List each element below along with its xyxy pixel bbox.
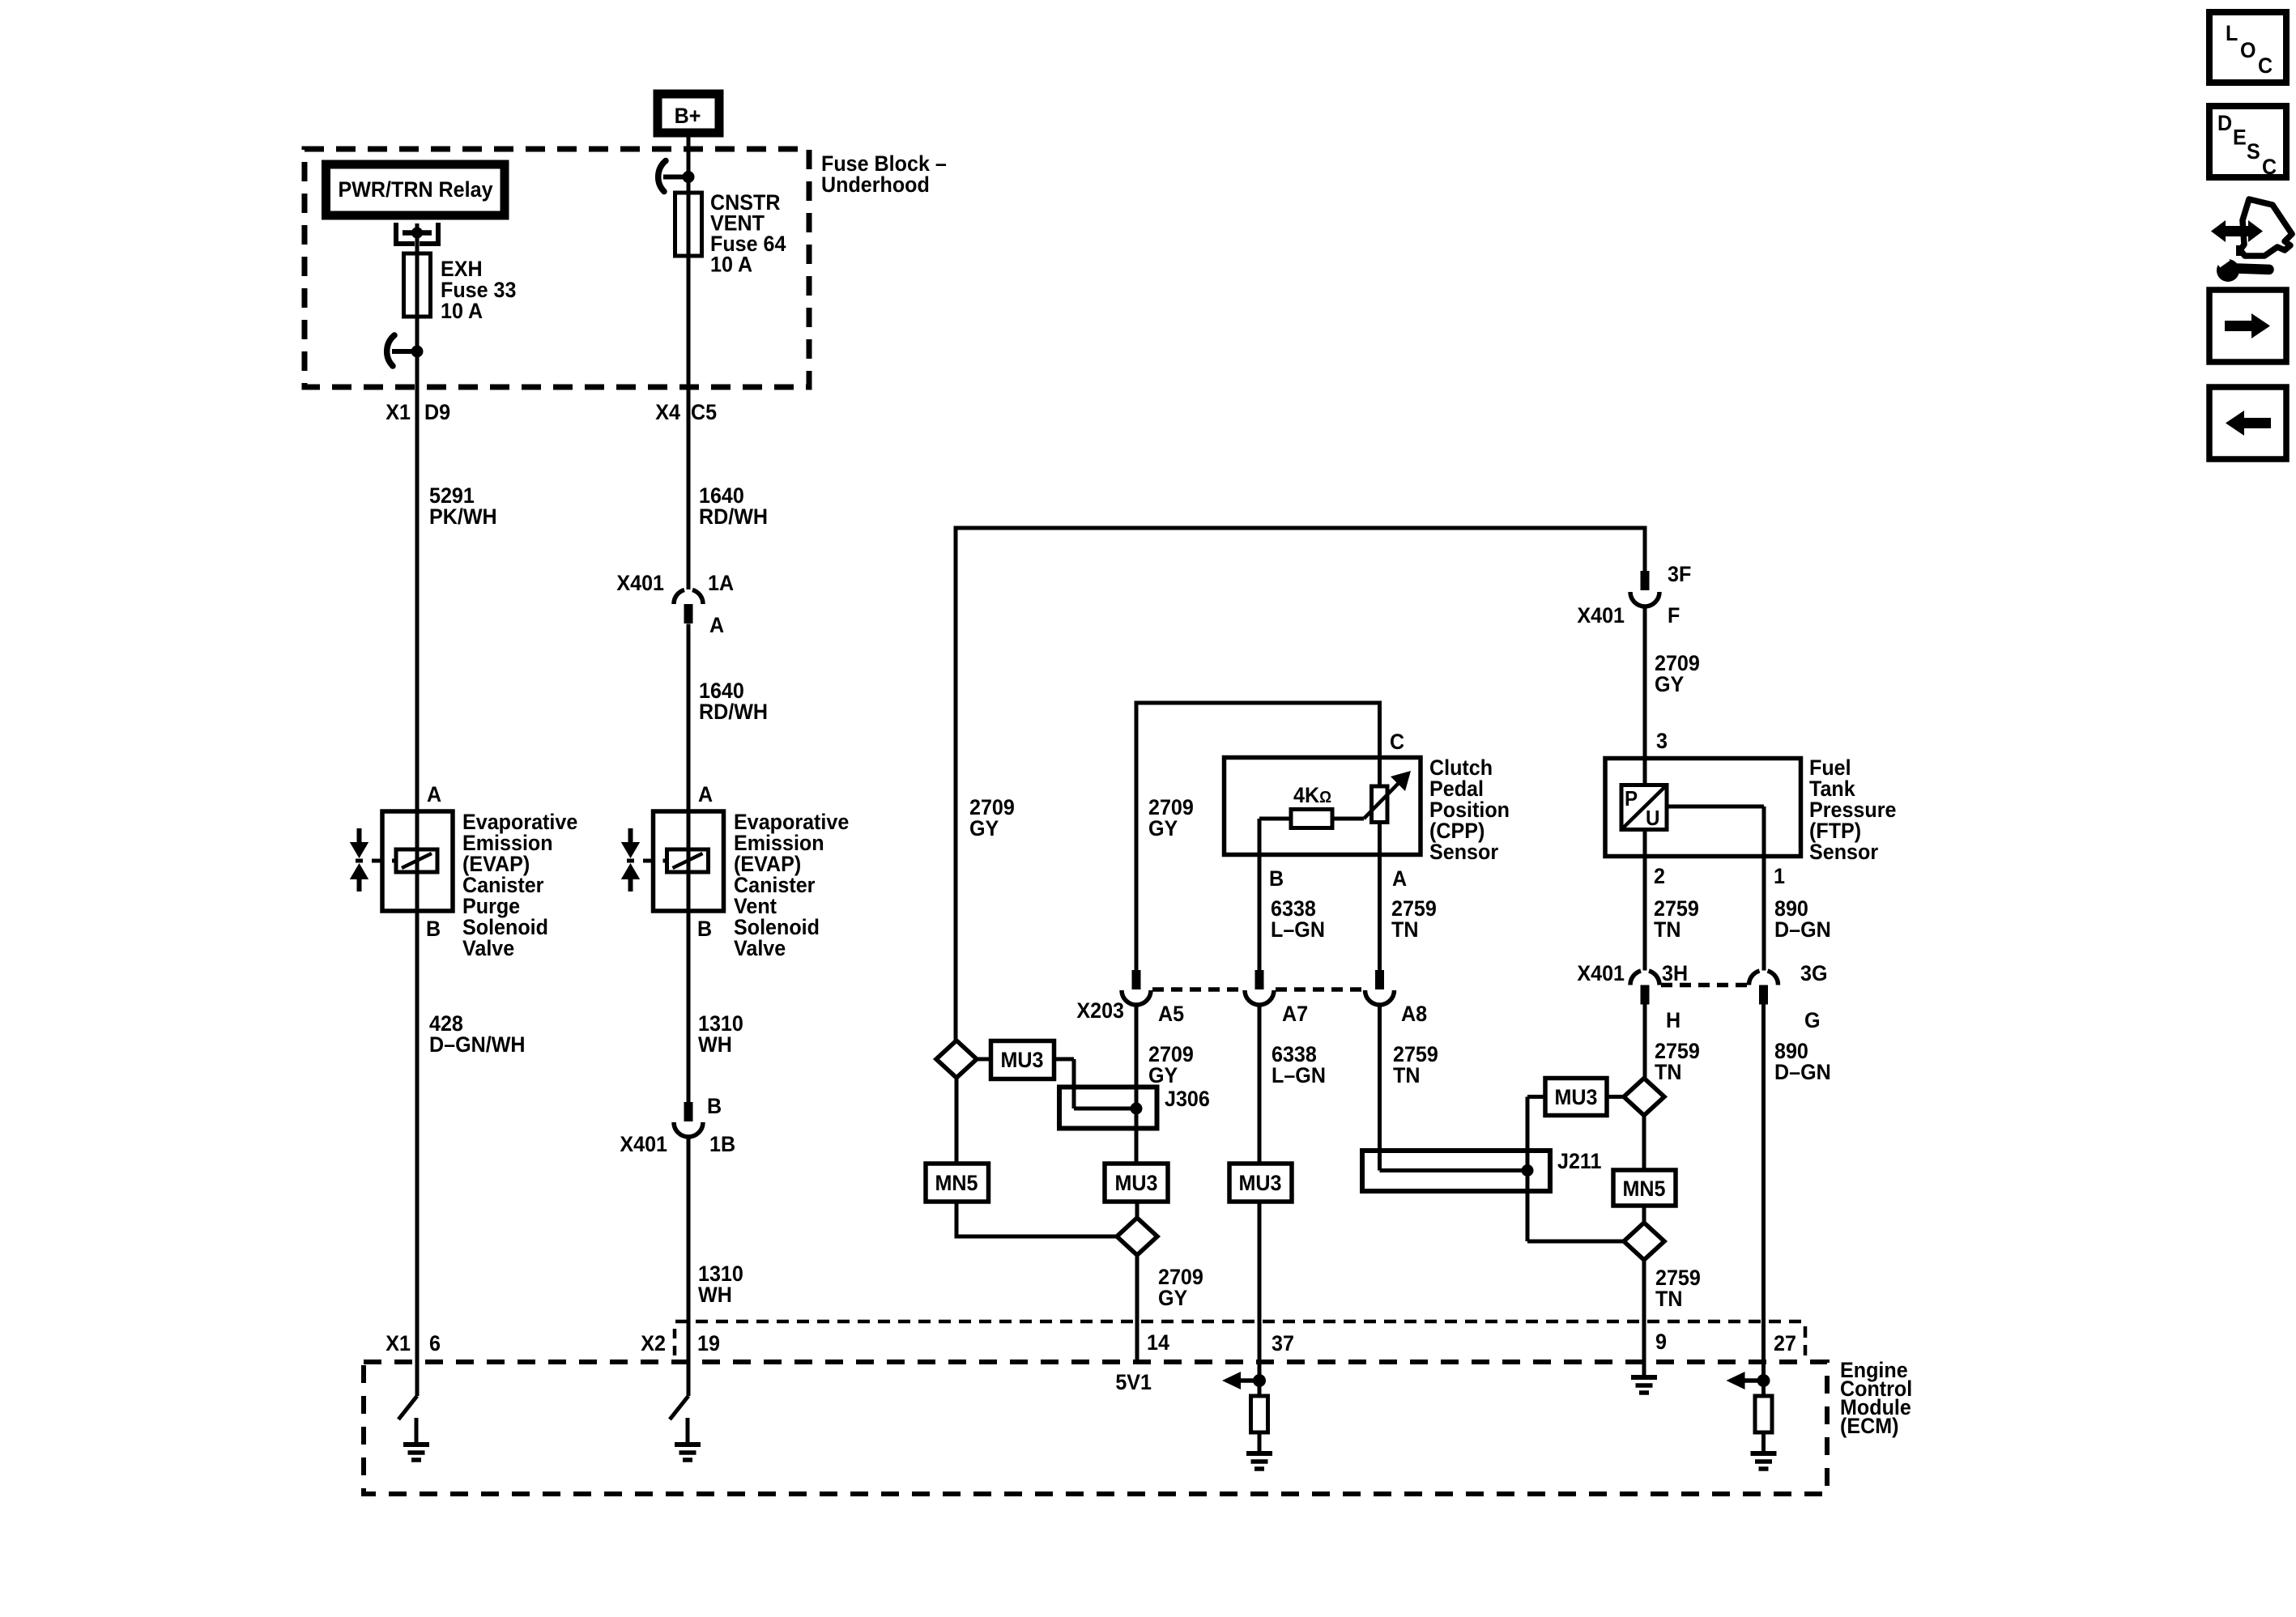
svg-text:L: L — [2226, 20, 2238, 45]
pin label A (X401) — [709, 612, 724, 637]
label CNSTR VENT Fuse 64 10 A — [710, 189, 786, 277]
ECM switch to ground (pin 19) — [670, 1362, 701, 1460]
wire relay to fuse 33 — [415, 233, 420, 254]
wire 5291 PK/WH — [417, 387, 497, 811]
svg-text:C5: C5 — [691, 399, 717, 424]
svg-text:GY: GY — [1655, 671, 1684, 696]
svg-text:B: B — [707, 1093, 722, 1118]
svg-text:Sensor: Sensor — [1809, 839, 1878, 864]
X401 harness dashes — [1661, 983, 1748, 988]
label Clutch Pedal Position (CPP) Sensor — [1429, 755, 1510, 864]
svg-text:J211: J211 — [1557, 1148, 1601, 1173]
svg-text:B: B — [1269, 866, 1284, 891]
wire CPP loop — [1136, 701, 1380, 971]
svg-text:G: G — [1804, 1007, 1821, 1032]
wire MU3 to diamond S3 — [1607, 1095, 1624, 1099]
wire B+ to fuse block — [687, 133, 691, 589]
wire 1640 RD/WH lower — [688, 624, 768, 812]
svg-text:RD/WH: RD/WH — [699, 699, 768, 724]
label X2 19 — [641, 1330, 720, 1355]
junction J306 — [1059, 1087, 1157, 1129]
relay contact hook X4 C5 — [658, 161, 695, 192]
ECM pull-up resistor pin 27 — [1727, 1362, 1777, 1469]
svg-text:14: 14 — [1147, 1330, 1169, 1355]
wire 6338 L-GN below A7 — [1259, 1005, 1326, 1164]
relay PWR/TRN label box — [326, 164, 505, 215]
wire MU3 to ECM 37 — [1258, 1202, 1262, 1362]
svg-text:A5: A5 — [1158, 1001, 1184, 1026]
svg-text:B: B — [697, 916, 712, 941]
connector X401 1A — [674, 590, 703, 624]
label Engine Control Module (ECM) — [1840, 1357, 1912, 1438]
label EVAP vent valve — [734, 809, 849, 960]
pin labels A5 A7 A8 — [1158, 1001, 1427, 1026]
label 3F — [1668, 561, 1691, 586]
pin label B above X401 1B — [707, 1093, 722, 1118]
connector X401 3G — [1749, 971, 1778, 1005]
svg-text:10 A: 10 A — [441, 298, 483, 323]
svg-text:MU3: MU3 — [1238, 1170, 1281, 1195]
label X1 6 — [386, 1330, 441, 1355]
wire MN5 to diamond S2 — [955, 1202, 1118, 1236]
svg-text:A8: A8 — [1401, 1001, 1427, 1026]
svg-text:GY: GY — [1158, 1285, 1187, 1310]
splice MU3 box 2 — [1105, 1164, 1168, 1202]
label J211 — [1557, 1148, 1601, 1173]
svg-text:D9: D9 — [424, 399, 450, 424]
ECM ground pin 9 — [1631, 1362, 1657, 1393]
splice diamond S2 — [1117, 1202, 1157, 1255]
svg-text:(ECM): (ECM) — [1840, 1413, 1899, 1438]
svg-text:X401: X401 — [620, 1131, 667, 1156]
wire 2759 TN (CPP A) — [1391, 896, 1437, 942]
svg-text:WH: WH — [698, 1282, 732, 1307]
svg-text:X1: X1 — [386, 399, 411, 424]
svg-text:WH: WH — [698, 1032, 732, 1057]
label X401 3H 3G — [1577, 960, 1827, 985]
svg-text:J306: J306 — [1165, 1086, 1210, 1111]
wire 2709 GY label (CPP loop leg) — [1148, 794, 1194, 840]
svg-text:X401: X401 — [616, 570, 664, 595]
svg-text:5V1: 5V1 — [1115, 1369, 1152, 1394]
svg-text:19: 19 — [697, 1330, 720, 1355]
wire 890 D-GN below G — [1764, 1005, 1831, 1363]
svg-text:X1: X1 — [386, 1330, 411, 1355]
icon DESC — [2209, 106, 2286, 179]
EVAP canister vent solenoid valve — [621, 811, 724, 911]
svg-text:Sensor: Sensor — [1429, 839, 1498, 864]
wire 428 D-GN/WH — [417, 911, 526, 1362]
connector X401 3H — [1630, 971, 1659, 1005]
pin label B (purge) — [426, 916, 441, 941]
svg-text:L–GN: L–GN — [1271, 917, 1325, 942]
icon arrow right — [2209, 290, 2286, 362]
svg-text:D–GN: D–GN — [1774, 917, 1831, 942]
ECM switch to ground (pin 6) — [398, 1362, 429, 1460]
wire 2759 TN (FTP 2) — [1654, 896, 1699, 942]
wire J211 to diamond S4 — [1527, 1171, 1624, 1242]
svg-text:Valve: Valve — [462, 935, 514, 960]
svg-text:A: A — [698, 781, 713, 806]
splice MU3 box 4 — [1545, 1079, 1607, 1116]
svg-text:GY: GY — [1148, 1062, 1178, 1087]
splice MU3 box 3 — [1229, 1164, 1292, 1202]
svg-text:P: P — [1625, 787, 1638, 811]
svg-text:MN5: MN5 — [935, 1170, 978, 1195]
svg-text:B+: B+ — [675, 103, 701, 128]
fuse F33 EXH — [404, 253, 431, 317]
X203 harness dashes — [1152, 987, 1363, 992]
svg-text:GY: GY — [1148, 815, 1178, 840]
icon arrow left — [2209, 387, 2286, 459]
CPP potentiometer bar — [1372, 758, 1388, 971]
pin label 1 — [1774, 863, 1785, 888]
pin label B (vent) — [697, 916, 712, 941]
label X401 1B — [620, 1131, 735, 1156]
svg-text:1A: 1A — [708, 570, 734, 595]
connector X401 F (3F) — [1630, 571, 1659, 606]
CPP internal resistor 4K ohm — [1259, 810, 1332, 971]
svg-text:F: F — [1668, 602, 1680, 628]
svg-text:A: A — [427, 781, 441, 806]
wire 2709 GY to ECM 14 — [1137, 1255, 1203, 1362]
wire 1310 WH lower — [688, 1137, 743, 1362]
svg-text:6: 6 — [429, 1330, 441, 1355]
svg-text:X4: X4 — [655, 399, 680, 424]
pin labels H G — [1666, 1007, 1821, 1032]
wire 2709 GY to FTP pin 3 — [1645, 606, 1700, 759]
EVAP canister purge solenoid valve — [350, 811, 453, 911]
svg-text:D: D — [2217, 110, 2232, 135]
splice MU3 box 1 — [977, 1041, 1054, 1079]
svg-text:D–GN: D–GN — [1774, 1059, 1831, 1084]
relay contact hook X1 D9 — [387, 335, 424, 366]
label Fuel Tank Pressure (FTP) Sensor — [1809, 755, 1896, 864]
wire 6338 L-GN (CPP B) — [1271, 896, 1325, 942]
wire 890 D-GN (FTP 1) — [1774, 896, 1831, 942]
pin label A (purge) — [427, 781, 441, 806]
icon LOC — [2209, 12, 2286, 83]
svg-text:RD/WH: RD/WH — [699, 504, 768, 529]
svg-text:MU3: MU3 — [1114, 1170, 1157, 1195]
wire 5V reference top loop — [956, 526, 1645, 1041]
connector X203 A8 — [1365, 970, 1395, 1005]
connector X203 A5 — [1122, 970, 1151, 1005]
ECM pull-up resistor pin 37 — [1222, 1362, 1272, 1469]
svg-text:C: C — [1390, 729, 1404, 754]
svg-text:PK/WH: PK/WH — [429, 504, 497, 529]
svg-text:37: 37 — [1272, 1330, 1294, 1355]
svg-text:S: S — [2247, 138, 2260, 164]
FTP pressure transducer P/U — [1621, 759, 1667, 971]
pin label X4 C5 — [655, 399, 717, 424]
wire MU3 to J306 — [1054, 1059, 1143, 1115]
svg-text:O: O — [2240, 37, 2256, 62]
pin label 3 — [1656, 728, 1668, 753]
svg-text:TN: TN — [1655, 1286, 1682, 1311]
label X203 — [1076, 998, 1124, 1023]
svg-text:C: C — [2262, 154, 2277, 179]
pin label A (vent) — [698, 781, 713, 806]
label J306 — [1165, 1086, 1210, 1111]
wire A5 through J306 to MU3 — [1135, 1087, 1139, 1164]
label 5V1 — [1115, 1369, 1152, 1394]
Fuse Block - Underhood dashed box — [305, 149, 809, 387]
svg-text:TN: TN — [1391, 917, 1418, 942]
svg-text:27: 27 — [1774, 1330, 1796, 1355]
svg-text:3H: 3H — [1662, 960, 1688, 985]
svg-text:2: 2 — [1654, 863, 1665, 888]
svg-text:U: U — [1646, 806, 1659, 830]
label X401 1A — [616, 570, 734, 595]
pin label 2 — [1654, 863, 1665, 888]
svg-text:1B: 1B — [709, 1131, 735, 1156]
ECM dashed box — [364, 1362, 1827, 1494]
splice diamond S4 — [1624, 1206, 1664, 1260]
pin label B (CPP) — [1269, 866, 1284, 891]
junction J211 — [1362, 1151, 1550, 1191]
wire 1310 WH upper — [688, 911, 743, 1102]
splice diamond S3 — [1624, 1079, 1664, 1116]
svg-text:A7: A7 — [1282, 1001, 1308, 1026]
svg-text:E: E — [2233, 125, 2247, 150]
svg-text:MN5: MN5 — [1622, 1176, 1665, 1201]
connector X2 dashed row — [675, 1321, 1805, 1357]
svg-text:3F: 3F — [1668, 561, 1691, 586]
svg-text:TN: TN — [1655, 1059, 1681, 1084]
svg-text:3: 3 — [1656, 728, 1668, 753]
svg-text:B: B — [426, 916, 441, 941]
svg-text:D–GN/WH: D–GN/WH — [429, 1032, 526, 1057]
wire 1640 RD/WH upper — [699, 483, 768, 529]
svg-text:A: A — [709, 612, 724, 637]
svg-text:TN: TN — [1654, 917, 1680, 942]
label X401 F — [1577, 602, 1680, 628]
wire diamond to MN5 — [1642, 1116, 1646, 1171]
svg-text:X203: X203 — [1076, 998, 1124, 1023]
splice diamond S1 — [936, 1040, 977, 1078]
label Fuse Block - Underhood — [821, 151, 947, 197]
splice MN5 box 2 — [1613, 1170, 1676, 1206]
wire 2709 GY label (left loop leg) — [969, 794, 1015, 840]
wire 2759 TN below H — [1645, 1005, 1700, 1085]
connector X203 A7 — [1245, 970, 1274, 1005]
svg-text:X401: X401 — [1577, 960, 1625, 985]
svg-text:L–GN: L–GN — [1272, 1062, 1326, 1087]
wire 2759 TN below A8 — [1380, 1005, 1438, 1151]
svg-text:MU3: MU3 — [1000, 1047, 1043, 1072]
svg-text:PWR/TRN Relay: PWR/TRN Relay — [338, 177, 493, 202]
svg-text:9: 9 — [1655, 1329, 1667, 1354]
wire J211 to MU3 — [1527, 1097, 1545, 1171]
label EXH Fuse 33 10 A — [441, 256, 516, 323]
label EVAP purge valve — [462, 809, 577, 960]
svg-text:Valve: Valve — [734, 935, 786, 960]
label 4K ohm — [1293, 782, 1331, 807]
wire 2709 GY below A5 — [1136, 1005, 1194, 1087]
svg-text:X401: X401 — [1577, 602, 1625, 628]
fuse F64 CNSTR VENT — [675, 193, 702, 256]
pin labels 14 37 9 27 — [1147, 1329, 1796, 1355]
svg-text:1: 1 — [1774, 863, 1785, 888]
svg-text:X2: X2 — [641, 1330, 666, 1355]
svg-text:3G: 3G — [1800, 960, 1827, 985]
connector X401 1B — [674, 1102, 703, 1137]
wire fuse 33 to contact — [415, 317, 420, 351]
svg-text:10 A: 10 A — [710, 252, 752, 277]
pin label A (CPP) — [1392, 866, 1407, 891]
power feed B+ box — [658, 94, 719, 133]
pin label C — [1390, 729, 1404, 754]
svg-text:TN: TN — [1393, 1062, 1420, 1087]
wire FTP pin1 internal — [1667, 806, 1764, 971]
CPP sensor box — [1225, 758, 1421, 855]
wire 2759 TN to ECM 9 — [1644, 1260, 1701, 1362]
svg-text:C: C — [2258, 53, 2273, 78]
svg-text:GY: GY — [969, 815, 999, 840]
splice MN5 box 1 — [926, 1078, 989, 1202]
CPP wiper arrow — [1332, 771, 1411, 819]
wire A8 into J211 — [1380, 1151, 1534, 1177]
wire contact to X1 D9 — [415, 351, 420, 387]
svg-text:A: A — [1392, 866, 1407, 891]
svg-text:MU3: MU3 — [1554, 1084, 1597, 1109]
svg-text:Underhood: Underhood — [821, 172, 930, 197]
relay coil terminal bracket — [394, 223, 441, 246]
FTP sensor box — [1605, 759, 1801, 857]
pin label X1 D9 — [386, 399, 450, 424]
svg-text:H: H — [1666, 1007, 1680, 1032]
icon vehicle double-arrow wrench — [2211, 199, 2292, 282]
